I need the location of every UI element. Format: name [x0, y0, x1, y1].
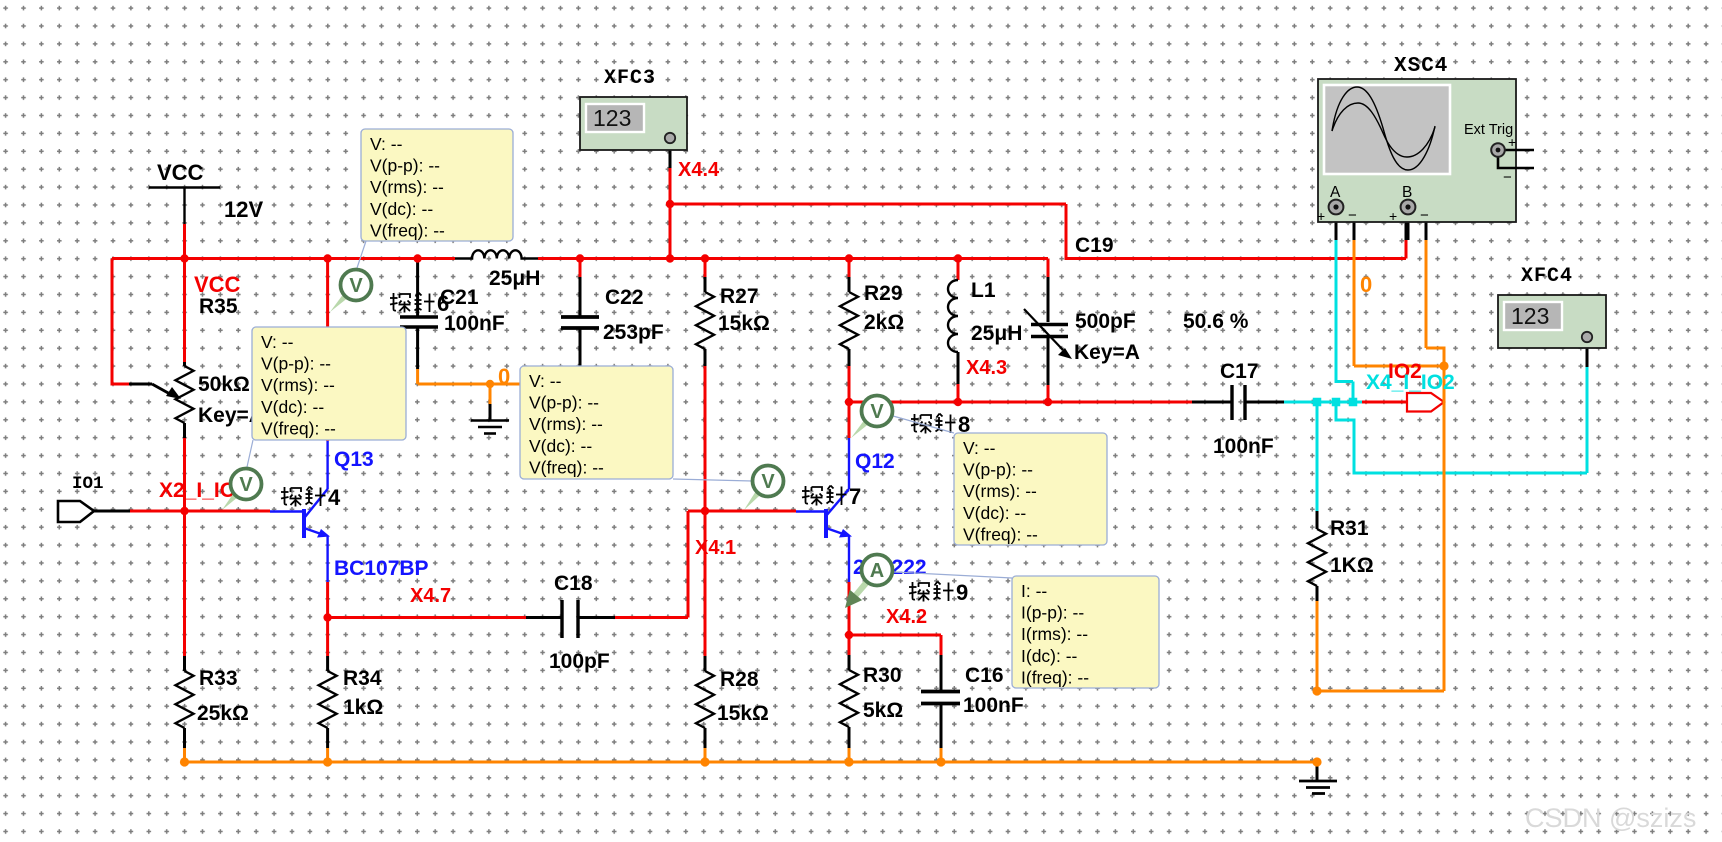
svg-text:Q13: Q13: [334, 448, 374, 471]
svg-text:1KΩ: 1KΩ: [1330, 554, 1374, 577]
svg-text:7: 7: [849, 484, 861, 509]
svg-text:V(dc): --: V(dc): --: [529, 436, 592, 456]
svg-text:V(rms): --: V(rms): --: [370, 177, 444, 197]
svg-text:253pF: 253pF: [603, 321, 664, 344]
svg-text:X4.2: X4.2: [886, 606, 927, 628]
svg-text:V(p-p): --: V(p-p): --: [963, 460, 1033, 480]
svg-text:6: 6: [437, 291, 449, 316]
svg-text:0: 0: [1360, 272, 1372, 297]
svg-text:I(p-p): --: I(p-p): --: [1021, 603, 1084, 623]
svg-text:X4.1: X4.1: [695, 537, 736, 559]
svg-text:−: −: [1348, 207, 1357, 224]
svg-text:R27: R27: [720, 285, 759, 308]
svg-text:V(rms): --: V(rms): --: [529, 414, 603, 434]
svg-text:25kΩ: 25kΩ: [197, 702, 249, 725]
svg-text:C22: C22: [605, 286, 644, 309]
svg-text:V(p-p): --: V(p-p): --: [370, 156, 440, 176]
svg-text:VCC: VCC: [194, 272, 241, 297]
svg-text:C19: C19: [1075, 234, 1114, 257]
svg-text:50.6 %: 50.6 %: [1183, 310, 1249, 333]
svg-text:9: 9: [956, 580, 968, 605]
svg-text:V(freq): --: V(freq): --: [370, 220, 445, 240]
svg-text:1kΩ: 1kΩ: [343, 696, 383, 719]
svg-text:I(freq): --: I(freq): --: [1021, 667, 1089, 687]
svg-text:R33: R33: [199, 667, 238, 690]
svg-text:V: V: [239, 474, 253, 496]
svg-text:12V: 12V: [224, 197, 263, 222]
svg-text:V(freq): --: V(freq): --: [261, 418, 336, 438]
svg-text:25μH: 25μH: [971, 322, 1022, 345]
svg-text:4: 4: [328, 485, 341, 510]
svg-text:XSC4: XSC4: [1394, 55, 1448, 78]
svg-text:V: V: [761, 471, 775, 493]
svg-text:A: A: [870, 560, 884, 582]
svg-text:R29: R29: [864, 282, 903, 305]
svg-text:V(rms): --: V(rms): --: [963, 481, 1037, 501]
svg-text:B: B: [1402, 184, 1412, 201]
svg-text:100nF: 100nF: [963, 694, 1024, 717]
svg-text:V(dc): --: V(dc): --: [370, 199, 433, 219]
svg-text:CSDN @szizs: CSDN @szizs: [1525, 803, 1696, 833]
svg-text:V(rms): --: V(rms): --: [261, 375, 335, 395]
svg-text:X4.4: X4.4: [678, 159, 720, 181]
svg-text:I(dc): --: I(dc): --: [1021, 646, 1078, 666]
svg-text:100nF: 100nF: [444, 312, 505, 335]
svg-text:VCC: VCC: [157, 160, 204, 185]
svg-text:V(freq): --: V(freq): --: [963, 524, 1038, 544]
svg-text:C18: C18: [554, 572, 593, 595]
svg-text:+: +: [1508, 134, 1516, 150]
svg-text:+: +: [1389, 208, 1397, 224]
svg-text:IO1: IO1: [72, 474, 104, 494]
svg-text:50kΩ: 50kΩ: [198, 373, 250, 396]
svg-text:R30: R30: [863, 664, 902, 687]
svg-text:0: 0: [498, 364, 510, 389]
svg-text:Q12: Q12: [855, 450, 895, 473]
svg-text:I: --: I: --: [1021, 581, 1047, 601]
svg-text:Key=A: Key=A: [1074, 341, 1140, 364]
svg-text:15kΩ: 15kΩ: [718, 312, 770, 335]
svg-text:5kΩ: 5kΩ: [863, 699, 903, 722]
svg-text:100nF: 100nF: [1213, 435, 1274, 458]
svg-text:V(p-p): --: V(p-p): --: [529, 393, 599, 413]
svg-text:V: --: V: --: [261, 332, 294, 352]
svg-text:X4.3: X4.3: [966, 357, 1007, 379]
svg-text:R31: R31: [1330, 517, 1369, 540]
svg-text:XFC3: XFC3: [604, 67, 656, 90]
svg-text:V: --: V: --: [370, 134, 403, 154]
svg-text:123: 123: [593, 105, 631, 131]
svg-text:C17: C17: [1220, 360, 1259, 383]
svg-text:R28: R28: [720, 668, 759, 691]
svg-text:X4_I_IO2: X4_I_IO2: [1366, 371, 1455, 394]
svg-text:BC107BP: BC107BP: [334, 557, 429, 580]
svg-text:−: −: [1420, 207, 1429, 224]
svg-text:V(dc): --: V(dc): --: [261, 397, 324, 417]
svg-text:A: A: [1330, 184, 1341, 201]
svg-text:Ext Trig: Ext Trig: [1464, 122, 1513, 138]
svg-text:15kΩ: 15kΩ: [717, 702, 769, 725]
svg-text:V(freq): --: V(freq): --: [529, 457, 604, 477]
svg-text:V: --: V: --: [529, 371, 562, 391]
svg-text:V(p-p): --: V(p-p): --: [261, 354, 331, 374]
svg-text:500pF: 500pF: [1075, 310, 1136, 333]
svg-text:2kΩ: 2kΩ: [864, 311, 904, 334]
svg-text:R35: R35: [199, 295, 238, 318]
svg-text:V: V: [349, 275, 363, 297]
svg-text:C16: C16: [965, 664, 1004, 687]
svg-text:+: +: [1317, 208, 1325, 224]
svg-text:V: V: [870, 401, 884, 423]
svg-text:XFC4: XFC4: [1521, 265, 1573, 288]
svg-text:L1: L1: [971, 279, 996, 302]
svg-text:V: --: V: --: [963, 438, 996, 458]
svg-text:25μH: 25μH: [489, 267, 540, 290]
svg-text:123: 123: [1511, 303, 1549, 329]
svg-text:R34: R34: [343, 667, 382, 690]
svg-text:X4.7: X4.7: [410, 585, 451, 607]
svg-text:V(dc): --: V(dc): --: [963, 503, 1026, 523]
svg-text:I(rms): --: I(rms): --: [1021, 624, 1088, 644]
svg-text:−: −: [1503, 169, 1512, 186]
svg-text:100pF: 100pF: [549, 650, 610, 673]
